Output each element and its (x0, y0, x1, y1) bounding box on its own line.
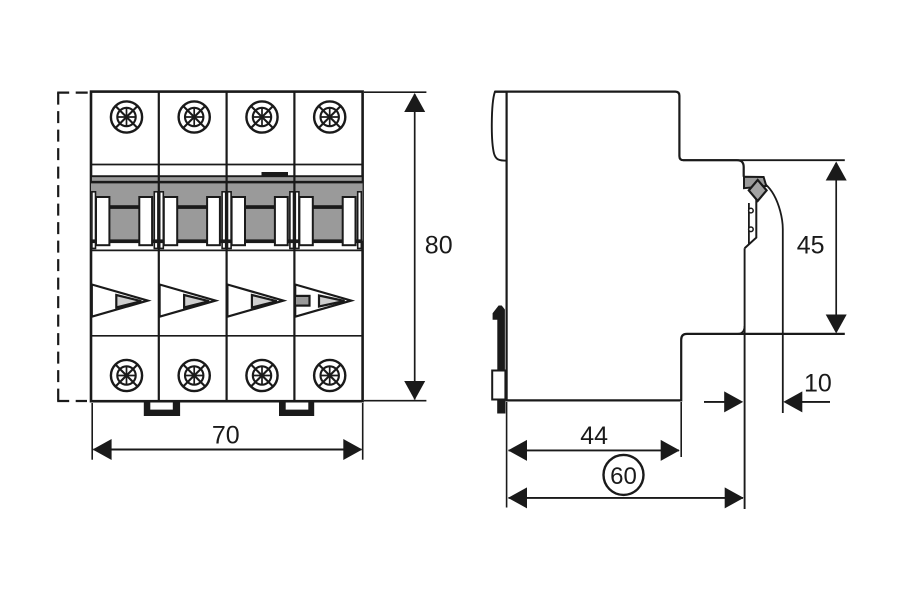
screw terminal bottom module 4 (314, 360, 345, 391)
gray band bottom border (91, 249, 363, 251)
module divider 2 (226, 92, 228, 401)
lower step line, lower front edge and bottom edge (507, 334, 845, 401)
toggle lever module 4 gray pad (295, 296, 310, 306)
70 dim extension line right (362, 403, 364, 460)
front bulge curve + 10 dim extension (766, 184, 783, 413)
60 label circle (604, 455, 644, 495)
rivet dot upper (749, 208, 754, 213)
80 dimension line (414, 94, 416, 400)
10 dim tail right (801, 401, 830, 403)
module divider 3 (293, 92, 295, 401)
10 dim tail left (704, 401, 726, 403)
svg-text:44: 44 (580, 422, 608, 450)
svg-text:45: 45 (797, 231, 825, 259)
70 dimension line (94, 449, 362, 451)
svg-text:10: 10 (804, 370, 832, 398)
rivet dot lower (749, 227, 754, 232)
DIN rail tab 2 (279, 401, 314, 416)
60 arrow right (725, 487, 744, 508)
45 arrow bottom (826, 315, 847, 334)
45 dimension line (835, 163, 837, 331)
45 dim extension line top (step line extended) (683, 159, 845, 161)
back DIN black foot (497, 400, 505, 414)
80 dim extension line top (364, 91, 426, 93)
band clips module 1 (91, 192, 159, 249)
screw terminal top module 3 (246, 101, 277, 132)
44 arrow right (661, 440, 680, 461)
70 dim extension line left (91, 403, 93, 460)
recess inner edge with rivets (748, 203, 750, 244)
svg-text:60: 60 (610, 463, 637, 490)
toggle lever module 4 inner triangle (319, 296, 345, 307)
side view top edge and upper step (495, 92, 744, 177)
gray band top border (91, 182, 363, 184)
toggle handle side diamond (749, 180, 767, 201)
80 arrow bottom (404, 381, 425, 400)
44 dim extension front lower (680, 402, 682, 457)
screw terminal bottom module 2 (179, 360, 210, 391)
70 arrow left (93, 439, 112, 460)
screw terminal top module 2 (179, 101, 210, 132)
screw terminal top module 4 (314, 101, 345, 132)
black tab on top of busbar strip (262, 172, 289, 178)
10 arrow pointing right at front face line (724, 391, 743, 412)
recess outer edge below handle (745, 199, 757, 248)
10 arrow pointing left at bulge line (783, 391, 802, 412)
front view body outline (91, 92, 363, 402)
toggle lever module 4 outer triangle (295, 285, 351, 317)
toggle lever module 2 (160, 285, 216, 317)
toggle lever module 1 (92, 285, 148, 317)
60 dimension line (509, 497, 744, 499)
back DIN slider box (492, 371, 505, 400)
thin gray strip (91, 176, 363, 182)
band clips module 3 (227, 192, 295, 249)
side view top flap (492, 92, 507, 161)
60 arrow left (508, 487, 527, 508)
45 arrow top (826, 162, 847, 181)
screw terminal bottom module 1 (111, 360, 142, 391)
front face mid vertical + 60 dim extension (744, 248, 746, 509)
dashed outline left of front view (57, 93, 91, 401)
band clips module 4 (294, 192, 362, 249)
side view back edge (506, 92, 508, 402)
44 arrow left (508, 440, 527, 461)
80 dim extension line bottom (364, 400, 426, 402)
band clips module 2 (159, 192, 227, 249)
svg-text:80: 80 (425, 232, 453, 260)
back DIN hook (black) (493, 306, 505, 371)
gray terminal band (91, 183, 363, 241)
screw terminal bottom module 3 (246, 360, 277, 391)
fillet of front face into step (738, 326, 745, 334)
svg-text:70: 70 (212, 422, 240, 450)
module divider 1 (158, 92, 160, 401)
screw terminal top module 1 (111, 101, 142, 132)
front top section line (91, 164, 363, 166)
44/60 dim extension back (506, 402, 508, 508)
front bottom section line (91, 335, 363, 337)
DIN rail tab 1 (144, 401, 180, 416)
toggle handle side gray pad (744, 177, 766, 188)
70 arrow right (343, 439, 362, 460)
44 dimension line (509, 449, 680, 451)
toggle lever module 3 (227, 285, 283, 317)
80 arrow top (404, 93, 425, 112)
